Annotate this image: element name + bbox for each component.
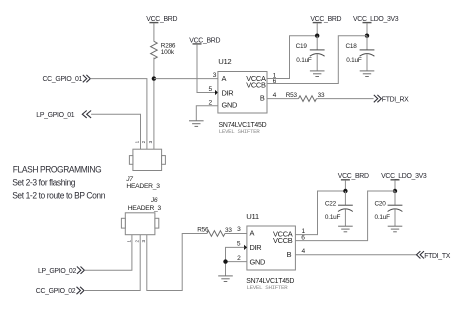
wire VCC_BRD down to node: [344, 180, 346, 191]
svg-text:A: A: [250, 228, 255, 237]
svg-text:4: 4: [273, 92, 277, 99]
wire U11 DIR pin 5 to ground tie: [226, 247, 245, 276]
svg-text:3: 3: [237, 226, 241, 233]
svg-text:J6: J6: [150, 197, 158, 204]
node DIR/GND tie: [223, 259, 227, 263]
node VCC_LDO_3V3/C18: [365, 34, 369, 38]
svg-text:6: 6: [273, 78, 277, 85]
resistor R53 33: [286, 92, 325, 101]
power VCC_LDO_3V3 (above C20): [381, 173, 427, 180]
svg-text:FTDI_RX: FTDI_RX: [382, 96, 409, 103]
svg-text:3: 3: [213, 72, 217, 79]
wire U11 VCCB pin 6 to C20 node: [295, 191, 395, 241]
port CC_GPIO_02: [36, 287, 84, 295]
wire CC_GPIO_01 to J7 pin2: [90, 79, 147, 150]
wire U12 GND pin 2 to ground: [196, 106, 218, 121]
svg-text:GND: GND: [250, 258, 266, 267]
svg-text:R53: R53: [286, 92, 298, 99]
svg-text:Set 1-2 to route to BP Conn: Set 1-2 to route to BP Conn: [12, 190, 105, 201]
wire U11 VCCA pin 1 to VCC_BRD node: [295, 191, 345, 235]
wire R286 bottom down to header J7 pin3: [153, 58, 155, 150]
svg-text:DIR: DIR: [250, 243, 262, 252]
svg-text:0.1uF: 0.1uF: [325, 214, 341, 221]
svg-text:B: B: [260, 94, 265, 103]
node VCC_LDO_3V3/C20: [393, 189, 397, 193]
svg-text:C20: C20: [375, 200, 387, 207]
wire J6 pin3 to R56: [147, 234, 207, 291]
svg-text:LEVEL SHIFTER: LEVEL SHIFTER: [247, 284, 289, 291]
wire VCC_LDO_3V3 down to node: [366, 23, 368, 36]
port FTDI_RX: [374, 95, 409, 104]
svg-text:GND: GND: [222, 101, 238, 110]
wire U12 B pin 4 to R53: [267, 98, 299, 100]
ground (C19): [310, 71, 325, 77]
wire LP_GPIO_01 to J7 pin1: [91, 114, 140, 149]
power VCC_BRD (above C19): [310, 16, 341, 23]
wire U12 VCCB pin 6 to C18 node: [267, 36, 367, 84]
svg-text:0.1uF: 0.1uF: [346, 57, 362, 64]
op-amp U11 level shifter SN74LVC1T45D: [246, 212, 295, 291]
svg-text:1: 1: [135, 140, 140, 143]
wire U11 GND pin 2 to tie: [226, 261, 247, 263]
svg-text:33: 33: [225, 227, 232, 234]
svg-text:2: 2: [135, 240, 140, 243]
svg-text:4: 4: [302, 248, 306, 255]
power VCC_BRD (above U12 DIR): [189, 37, 220, 44]
svg-text:HEADER_3: HEADER_3: [126, 183, 160, 190]
wire VCC_BRD to U12 DIR pin 5: [197, 44, 215, 92]
power VCC_LDO_3V3 (above C18): [353, 16, 399, 23]
resistor R56 33: [197, 227, 232, 237]
wire CC_GPIO_02 to J6 pin2: [84, 235, 140, 291]
ground (U11 DIR/GND): [218, 276, 233, 282]
ground (U12 GND): [189, 121, 204, 127]
svg-text:C18: C18: [346, 43, 358, 50]
wire R56 to U11 pin A: [225, 233, 247, 235]
wire node to U12 pin A: [154, 78, 218, 80]
svg-text:FLASH PROGRAMMING: FLASH PROGRAMMING: [13, 164, 102, 175]
wire U11 B pin 4 to FTDI_TX port: [295, 254, 416, 256]
svg-text:R56: R56: [197, 227, 209, 234]
svg-text:1: 1: [126, 240, 131, 243]
FLASH PROGRAMMING note text: [12, 164, 105, 201]
svg-text:B: B: [287, 250, 292, 259]
resistor R286: [151, 41, 176, 59]
wire VCC_BRD to R286: [153, 23, 155, 42]
svg-text:C22: C22: [325, 200, 337, 207]
svg-text:FTDI_TX: FTDI_TX: [424, 253, 451, 260]
pin 5 arrow U12 DIR: [215, 90, 218, 95]
svg-text:HEADER_3: HEADER_3: [128, 205, 162, 212]
wire U12 VCCA pin 1 to VCC_BRD node: [267, 36, 317, 79]
svg-text:5: 5: [237, 240, 241, 247]
svg-text:0.1uF: 0.1uF: [375, 214, 391, 221]
wire R53 to FTDI_RX port: [317, 98, 374, 100]
svg-text:3: 3: [148, 140, 153, 143]
svg-text:C19: C19: [296, 43, 308, 50]
svg-text:DIR: DIR: [222, 88, 234, 97]
port CC_GPIO_01: [43, 75, 91, 83]
svg-text:CC_GPIO_01: CC_GPIO_01: [43, 76, 83, 83]
svg-text:VCCB: VCCB: [246, 81, 266, 90]
wire VCC_LDO_3V3 down to node: [394, 180, 396, 191]
svg-text:2: 2: [141, 140, 146, 143]
capacitor C20: [375, 191, 403, 226]
wire LP_GPIO_02 to J6 pin1: [84, 235, 131, 271]
ground (C18): [360, 71, 375, 77]
svg-text:U12: U12: [218, 57, 231, 66]
svg-text:LP_GPIO_01: LP_GPIO_01: [36, 112, 74, 119]
svg-text:VCCB: VCCB: [273, 236, 293, 245]
port LP_GPIO_01: [36, 111, 91, 119]
port FTDI_TX: [417, 251, 451, 260]
svg-text:100k: 100k: [161, 49, 175, 56]
connector J6 HEADER_3: [121, 197, 161, 235]
node junction R286/U12.A: [152, 76, 156, 80]
svg-text:LEVEL SHIFTER: LEVEL SHIFTER: [219, 128, 261, 135]
svg-text:VCC_LDO_3V3: VCC_LDO_3V3: [381, 173, 427, 180]
node VCC_BRD/C22: [343, 189, 347, 193]
node VCC_BRD/C19: [315, 34, 319, 38]
svg-text:U11: U11: [246, 212, 259, 221]
ground (C20): [388, 226, 403, 232]
svg-text:VCC_LDO_3V3: VCC_LDO_3V3: [353, 16, 399, 23]
svg-text:Set 2-3 for flashing: Set 2-3 for flashing: [12, 177, 75, 188]
power VCC_BRD (above R286): [146, 16, 177, 23]
svg-text:0.1uF: 0.1uF: [296, 57, 312, 64]
pin 5 arrow U11 DIR: [244, 245, 247, 250]
capacitor C19: [296, 36, 325, 71]
svg-text:3: 3: [141, 240, 146, 243]
op-amp U12 level shifter SN74LVC1T45D: [218, 57, 267, 135]
svg-text:CC_GPIO_02: CC_GPIO_02: [36, 288, 76, 295]
port LP_GPIO_02: [38, 267, 84, 275]
power VCC_BRD (above C22): [338, 173, 369, 180]
svg-text:A: A: [222, 74, 227, 83]
capacitor C22: [325, 191, 353, 226]
svg-text:LP_GPIO_02: LP_GPIO_02: [38, 268, 76, 275]
connector J7 HEADER_3: [125, 149, 165, 190]
ground (C22): [338, 226, 353, 232]
svg-text:2: 2: [237, 255, 241, 262]
capacitor C18: [346, 36, 375, 71]
wire VCC_BRD down to node: [316, 23, 318, 36]
svg-text:5: 5: [209, 86, 213, 93]
